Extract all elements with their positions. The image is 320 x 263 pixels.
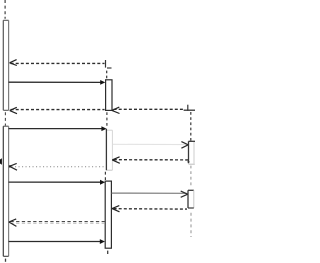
message a3a dashed reply from L3 elbow to L2 <box>112 107 183 113</box>
message a11 dashed reply L3 to L2 <box>112 206 187 212</box>
lifeline L2 gap dashes below mid bar <box>104 172 106 180</box>
message a10 gray call arrow L2 to L3 <box>112 191 188 197</box>
message a2 solid call arrow L1 to L2 <box>9 80 106 85</box>
message a4 solid call arrow L1 to L2 <box>9 126 107 131</box>
activation bar L2-B3 <box>105 181 111 248</box>
a3 long segment at image right edge <box>184 109 195 111</box>
lifeline L1 top dashed segment <box>4 0 6 19</box>
activation bar L1-A2 <box>3 126 8 256</box>
message a13 solid call arrow L1 to L2 <box>9 239 105 244</box>
a3 elbow descending dashes to L3 bar <box>190 112 192 141</box>
lifeline L2 gap dashes below B1 <box>106 112 108 127</box>
a3 elbow tick on L3 <box>187 105 189 111</box>
message a3b dashed reply from L2 to L1 <box>10 107 105 113</box>
activation bar L2-B2 (nested, light edges) <box>106 129 112 170</box>
message a5 light call arrow L2 to L3 <box>113 142 188 149</box>
message a12 hollow-dashed reply L2 to L1 <box>9 219 105 227</box>
lifeline L1 gap dashed segment <box>4 112 6 125</box>
lifeline L3 gap dashes between C1 and C2 (light) <box>190 166 192 188</box>
message a7 dotted arrow to L1 <box>9 163 104 170</box>
lifeline L2 bottom dashed tail <box>107 251 109 254</box>
message a6 dashed reply L3 to L2 <box>112 157 188 164</box>
message a1 dashed reply arrow to L1 <box>10 60 105 66</box>
message a8 clipped arrowhead at image left edge <box>0 158 2 164</box>
a1 elbow tick on L2 <box>105 60 107 68</box>
activation bar L3-C2 <box>188 190 194 208</box>
activation bar L1-A1 <box>3 20 8 110</box>
message a9 solid call arrow L1 to L2 <box>9 180 106 185</box>
a1 elbow corner dash <box>107 67 112 69</box>
lifeline L1 bottom dashed tail <box>5 259 7 262</box>
a1 elbow descending dashes <box>106 71 108 80</box>
lifeline L3 bottom dashed tail <box>190 213 192 237</box>
activation bar L2-B1 <box>106 80 112 111</box>
activation bar L3-C1 <box>188 141 196 164</box>
